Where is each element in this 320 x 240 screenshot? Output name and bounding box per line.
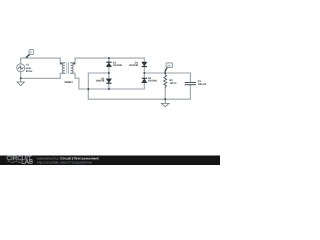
resistor R1 xyxy=(164,75,167,89)
node flag "in" xyxy=(26,50,34,58)
node flag "out" xyxy=(165,63,173,72)
wire V1 top stub xyxy=(20,58,22,64)
wire C1 top stub xyxy=(189,73,191,82)
svg-text:100 mF: 100 mF xyxy=(198,83,207,86)
wire xfmr secondary bottom pin xyxy=(71,73,76,78)
wire top rail primary xyxy=(21,57,61,59)
wire primary bottom rail xyxy=(21,77,61,79)
wire secondary top rail to bridge xyxy=(75,57,144,59)
wire xfmr primary bottom pin xyxy=(60,73,65,78)
svg-text:http://circuitlab.com/c/r73uzg: http://circuitlab.com/c/r73uzg32j4mew xyxy=(37,160,93,164)
svg-text:1N4148: 1N4148 xyxy=(129,64,138,67)
wire R1 top stub xyxy=(164,73,166,75)
junction bottom rail / out- xyxy=(87,88,89,90)
wire R1 bottom stub xyxy=(164,89,166,100)
wire out- drop xyxy=(87,89,89,99)
junction V1-ground xyxy=(20,77,22,79)
wire D1 top stub xyxy=(108,58,110,62)
diode D3 xyxy=(142,62,147,67)
diode D2 xyxy=(106,79,111,84)
wire out- rail xyxy=(88,98,190,100)
svg-text:XFMR1: XFMR1 xyxy=(64,81,73,84)
wire D3-D4 mid stub xyxy=(143,66,145,78)
junction D3-D4 mid / out+ xyxy=(143,72,145,74)
wire secondary bottom jog xyxy=(75,78,79,89)
footer bar xyxy=(0,156,220,166)
svg-text:100 Ω: 100 Ω xyxy=(170,82,177,85)
wire out+ rail xyxy=(144,72,190,74)
junction R1 top xyxy=(164,72,166,74)
svg-text:1N4148: 1N4148 xyxy=(113,64,122,67)
ground (V1) xyxy=(17,78,24,85)
ground (R1) xyxy=(161,99,169,107)
wire bridge bottom rail xyxy=(79,88,144,90)
transformer XFMR1 xyxy=(62,63,73,74)
svg-text:1N4148: 1N4148 xyxy=(148,79,157,82)
svg-text:out: out xyxy=(167,64,171,67)
wire V1 bottom stub xyxy=(20,72,22,79)
transformer core xyxy=(67,62,69,74)
svg-text:1N4148: 1N4148 xyxy=(96,80,105,83)
wire xfmr primary top pin xyxy=(60,58,65,63)
phase dot right xyxy=(74,63,76,65)
junction D1 top rail xyxy=(108,57,110,59)
junction D1-D2 mid (node A) xyxy=(108,72,110,74)
capacitor C1 xyxy=(185,83,196,85)
junction R1 bottom xyxy=(164,98,166,100)
svg-text:LAB: LAB xyxy=(21,159,33,165)
voltage source V1 xyxy=(17,64,25,72)
wire node A riser xyxy=(88,73,109,89)
diode D1 xyxy=(106,62,111,66)
wire D2 bottom stub xyxy=(108,83,110,89)
svg-text:60 Hz: 60 Hz xyxy=(26,70,33,73)
wire C1 bottom stub xyxy=(189,85,191,99)
diode D4 xyxy=(142,78,147,83)
wire D4 bottom stub xyxy=(143,83,145,89)
wire D3 top stub xyxy=(143,58,145,62)
junction D2 bottom rail xyxy=(108,88,110,90)
phase dot left xyxy=(60,63,62,65)
wire xfmr secondary top pin xyxy=(71,58,76,63)
wire D1-D2 mid stub xyxy=(108,67,110,79)
